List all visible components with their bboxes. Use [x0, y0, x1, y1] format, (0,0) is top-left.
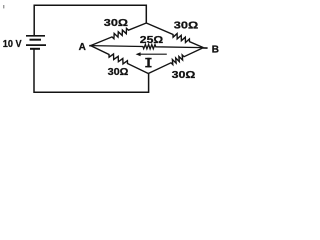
svg-text:30Ω: 30Ω	[104, 18, 128, 29]
resistor R1 30ohm top-left (A to top vertex)	[91, 23, 147, 46]
svg-text:30Ω: 30Ω	[174, 21, 198, 32]
node B stub	[203, 47, 208, 49]
svg-text:10 V: 10 V	[3, 39, 22, 50]
battery 10 V	[26, 36, 46, 49]
resistor R2 30ohm top-right (top vertex to B)	[146, 23, 203, 48]
label I (serif capital drawn as bars)	[145, 58, 151, 68]
svg-text:30Ω: 30Ω	[172, 70, 196, 81]
svg-text:30Ω: 30Ω	[108, 67, 129, 78]
svg-text:B: B	[212, 45, 219, 56]
svg-text:25Ω: 25Ω	[140, 35, 163, 46]
resistor R3 30ohm bottom-left (A to bottom vertex)	[91, 46, 149, 74]
resistor R5 25ohm middle (A to B)	[91, 44, 204, 49]
wire bottom from battery to bottom vertex	[34, 49, 149, 92]
scan speck top-left	[3, 5, 4, 8]
wire top from battery to top vertex	[34, 5, 146, 36]
svg-text:A: A	[79, 42, 86, 53]
node A stub	[89, 45, 91, 47]
resistor R4 30ohm bottom-right (bottom vertex to B)	[148, 48, 203, 74]
current arrow I	[136, 52, 167, 56]
